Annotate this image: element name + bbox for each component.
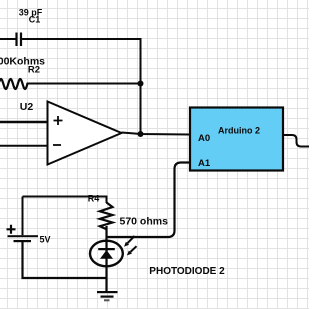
wire	[105, 226, 107, 278]
photodiode D2	[90, 236, 137, 266]
wire	[0, 121, 48, 124]
svg-text:570 ohms: 570 ohms	[120, 216, 169, 228]
wire	[0, 38, 16, 40]
svg-text:PHOTODIODE 2: PHOTODIODE 2	[149, 266, 225, 277]
wire	[22, 39, 141, 134]
svg-text:A1: A1	[198, 158, 211, 169]
svg-text:5V: 5V	[40, 235, 51, 245]
wire	[23, 242, 107, 278]
wire	[122, 133, 190, 135]
resistor R2	[0, 79, 27, 89]
svg-text:A0: A0	[198, 133, 210, 144]
svg-text:R2: R2	[28, 65, 40, 76]
svg-text:U2: U2	[20, 101, 34, 113]
capacitor C1	[17, 33, 22, 47]
wire	[107, 163, 191, 238]
wire	[22, 197, 24, 236]
Arduino 2 block	[190, 108, 283, 171]
junction	[138, 81, 144, 87]
svg-text:C1: C1	[29, 15, 41, 25]
svg-text:Arduino 2: Arduino 2	[218, 126, 260, 136]
wire	[23, 197, 107, 204]
op-amp U2	[48, 102, 122, 165]
junction	[138, 131, 144, 137]
wire	[284, 135, 309, 147]
wire	[27, 83, 141, 85]
wire	[0, 145, 48, 147]
svg-text:R4: R4	[88, 194, 100, 204]
battery BT1 5V	[7, 225, 39, 242]
resistor R4	[100, 203, 113, 230]
ground	[97, 278, 118, 301]
